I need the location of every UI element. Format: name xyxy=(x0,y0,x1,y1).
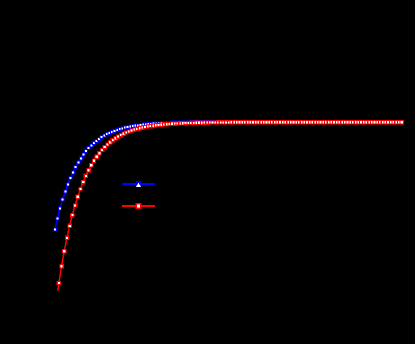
blue curve markers xyxy=(53,120,400,232)
legend red entry xyxy=(122,203,155,209)
red curve markers xyxy=(57,120,404,285)
blue curve line xyxy=(55,122,401,230)
legend blue entry xyxy=(122,181,155,187)
red curve line xyxy=(58,122,404,291)
